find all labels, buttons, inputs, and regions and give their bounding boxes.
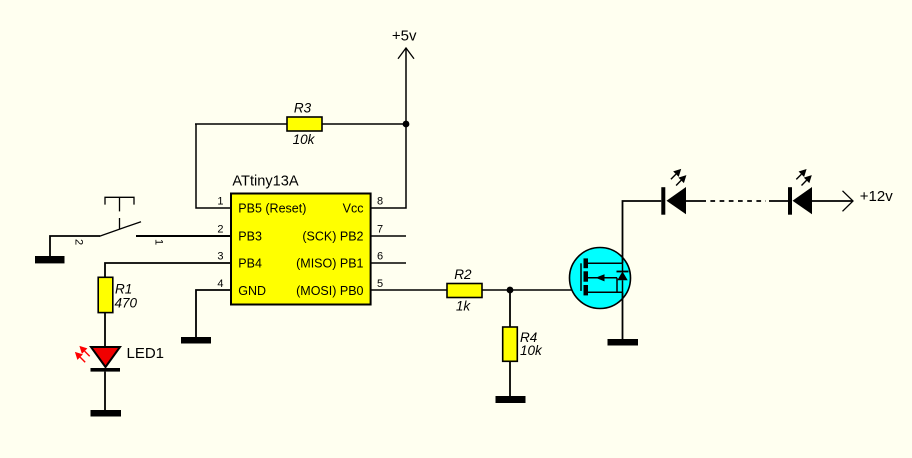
- svg-text:+5v: +5v: [392, 28, 417, 45]
- svg-text:10k: 10k: [293, 132, 316, 147]
- wire: R4 bottom to ground: [509, 361, 511, 396]
- label +5v: [392, 28, 417, 45]
- junction node R2/R4/gate: [507, 287, 514, 294]
- label R3: [294, 101, 312, 116]
- wire: Q1 source to ground: [622, 292, 624, 339]
- label R2: [454, 267, 472, 282]
- wire: R3 right lead to +5v rail: [322, 123, 406, 125]
- pin 2 label PB3: [238, 230, 262, 244]
- wire: pin 7 stub: [371, 235, 407, 237]
- value 1k (R2): [456, 299, 472, 314]
- resistor R2: [447, 284, 482, 298]
- ground (LED1): [91, 410, 122, 417]
- pin 6 label (MISO) PB1: [296, 257, 363, 271]
- svg-text:PB5 (Reset): PB5 (Reset): [238, 202, 306, 216]
- svg-text:2: 2: [217, 224, 223, 236]
- svg-text:1k: 1k: [456, 299, 472, 314]
- svg-text:5: 5: [377, 278, 383, 290]
- svg-text:LED1: LED1: [127, 345, 165, 362]
- label R1: [115, 282, 132, 297]
- ground (Q1 source): [608, 339, 639, 346]
- pin 1 label PB5 (Reset): [238, 202, 306, 216]
- label ATtiny13A: [232, 174, 299, 190]
- svg-text:1: 1: [217, 196, 223, 208]
- pin 2 number: [217, 224, 223, 236]
- IC U1 ATtiny13A body: [231, 194, 371, 305]
- Q1 body diode: [617, 263, 629, 292]
- pin 1 number: [217, 196, 223, 208]
- wire: LED1 cathode to ground: [104, 372, 106, 410]
- value 10k (R3): [293, 132, 316, 147]
- svg-text:3: 3: [217, 251, 223, 263]
- svg-text:PB3: PB3: [238, 230, 262, 244]
- pin 6 number: [377, 251, 383, 263]
- wire: dashes to LED D3: [769, 200, 788, 202]
- wire: pin1 net up-left loop to R3: [196, 124, 231, 208]
- junction node R3/+5v rail: [403, 121, 410, 128]
- pin 8 number: [377, 196, 383, 208]
- pin 5 label (MOSI) PB0: [296, 284, 363, 298]
- label +12v: [860, 188, 893, 205]
- ground (IC pin 4): [181, 337, 211, 344]
- wire: switch right terminal to pin 2: [136, 235, 231, 237]
- svg-text:1: 1: [152, 239, 164, 245]
- value 10k (R4): [520, 343, 543, 358]
- ground (switch): [35, 256, 65, 263]
- wire: pin 5 to R2 left: [371, 289, 448, 291]
- svg-text:R2: R2: [454, 267, 472, 282]
- wire: pin 6 stub: [371, 262, 407, 264]
- wire: D3 to +12v arrow: [812, 200, 853, 202]
- pin 7 number: [377, 224, 383, 236]
- pin 3 label PB4: [238, 257, 262, 271]
- svg-text:6: 6: [377, 251, 383, 263]
- value 470 (R1): [115, 296, 138, 311]
- label LED1: [127, 345, 165, 362]
- svg-text:10k: 10k: [520, 343, 543, 358]
- LED D2 emission arrows: [671, 169, 687, 186]
- wire: pin 3 to R1 top: [105, 263, 231, 277]
- wire: node down to R4: [509, 290, 511, 327]
- LED1 cathode bar: [91, 368, 121, 372]
- wire: R3 left lead: [195, 123, 287, 125]
- LED D2 triangle: [667, 187, 687, 214]
- Q1 channel bars: [584, 258, 589, 295]
- LED D3 cathode bar: [788, 187, 792, 215]
- resistor R4: [503, 327, 518, 361]
- svg-text:+12v: +12v: [860, 188, 893, 205]
- LED D3 emission arrows: [796, 169, 812, 186]
- svg-text:7: 7: [377, 224, 383, 236]
- svg-text:2: 2: [72, 239, 84, 245]
- pin 7 label (SCK) PB2: [302, 230, 363, 244]
- resistor R3: [287, 117, 322, 131]
- label R4: [520, 330, 537, 345]
- wire: +5v rail vertical to pin 8: [371, 48, 407, 208]
- Q1 gate electrode: [580, 263, 582, 291]
- pin 4 label GND: [238, 284, 266, 298]
- svg-text:4: 4: [217, 278, 223, 290]
- wire: dashed (more LEDs): [710, 200, 766, 202]
- pin 3 number: [217, 251, 223, 263]
- svg-text:(SCK) PB2: (SCK) PB2: [302, 230, 363, 244]
- transistor Q1 MOSFET body circle: [570, 248, 631, 309]
- LED1 emission arrows: [75, 346, 90, 362]
- svg-text:ATtiny13A: ATtiny13A: [232, 174, 299, 190]
- +12v open arrowhead: [843, 191, 854, 212]
- svg-text:(MOSI) PB0: (MOSI) PB0: [296, 284, 363, 298]
- svg-text:PB4: PB4: [238, 257, 262, 271]
- LED1 diode triangle: [91, 347, 120, 367]
- wire: switch left terminal to ground: [50, 236, 100, 256]
- resistor R1: [98, 277, 113, 312]
- svg-text:R3: R3: [294, 101, 312, 116]
- wire: R1 bottom to LED1 anode: [104, 313, 106, 347]
- svg-text:(MISO) PB1: (MISO) PB1: [296, 257, 363, 271]
- switch pin number 2: [72, 239, 84, 245]
- wire: Q1 drain up and right to LED string: [623, 201, 662, 263]
- LED D2 cathode bar: [661, 187, 665, 215]
- svg-text:8: 8: [377, 196, 383, 208]
- switch S1 actuator button: [105, 197, 134, 229]
- LED D3 triangle: [793, 187, 813, 214]
- svg-text:R1: R1: [115, 282, 132, 297]
- svg-text:GND: GND: [238, 284, 266, 298]
- wire: D2 to dashed continuation: [686, 200, 706, 202]
- switch S1 blade contact: [100, 222, 142, 237]
- Q1 body lead with arrow: [588, 274, 617, 292]
- pin 8 label Vcc: [343, 202, 364, 216]
- ground (R4): [496, 396, 526, 403]
- power +5v arrow symbol: [398, 48, 414, 59]
- wire: R2 right to gate net: [482, 289, 581, 291]
- wire: pin 4 to ground: [196, 290, 231, 337]
- pin 4 number: [217, 278, 223, 290]
- Q1 drain lead: [588, 262, 623, 264]
- Q1 source lead: [588, 291, 623, 293]
- svg-text:470: 470: [115, 296, 138, 311]
- svg-text:Vcc: Vcc: [343, 202, 364, 216]
- switch pin number 1: [152, 239, 164, 245]
- pin 5 number: [377, 278, 383, 290]
